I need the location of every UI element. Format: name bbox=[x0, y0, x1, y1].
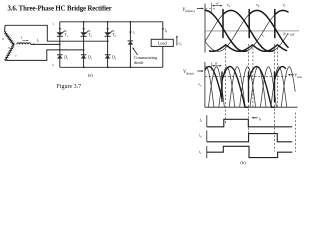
baseline bbox=[205, 106, 298, 108]
ia waveform bbox=[207, 119, 292, 127]
vertical axis bbox=[204, 4, 206, 53]
firing rise line 2 bbox=[248, 72, 250, 102]
junction top rail commutating diode bbox=[130, 21, 132, 23]
diode D2 bbox=[81, 54, 87, 56]
leg 2 wire bbox=[83, 22, 85, 68]
junction bottom rail commutating diode bbox=[130, 66, 132, 68]
alpha arrows bbox=[214, 65, 220, 67]
V0(max) arrow bbox=[197, 70, 202, 72]
commutating diode symbol bbox=[128, 40, 134, 42]
leg 3 wire bbox=[107, 22, 109, 68]
winding phase b (upper-left) bbox=[5, 32, 14, 45]
thick conduction sweep va bbox=[223, 10, 274, 51]
firing drop line 2 bbox=[248, 10, 250, 38]
junction top rail leg2 bbox=[83, 21, 85, 23]
bottom rail bbox=[60, 66, 163, 68]
node dot at leg2 (phase c) bbox=[83, 49, 85, 51]
ib waveform bbox=[207, 134, 292, 142]
current arrow on leg 2 bbox=[83, 28, 85, 31]
leg 1 wire bbox=[59, 22, 61, 68]
commutating diode branch bbox=[129, 22, 131, 68]
junction top rail leg3 bbox=[107, 21, 109, 23]
thick output arc 1 bbox=[222, 67, 248, 108]
thick output arc 0 bbox=[205, 67, 222, 99]
firing rise line 1 bbox=[221, 72, 223, 102]
vertical axis bbox=[204, 62, 206, 107]
small arrow above coil bbox=[23, 39, 29, 41]
current arrow on leg 3 bbox=[107, 28, 109, 31]
diode D3 bbox=[105, 54, 111, 56]
thick conduction sweep vc2 bbox=[275, 10, 288, 14]
load branch top wire bbox=[162, 22, 164, 40]
firing drop line 3 bbox=[274, 10, 276, 38]
svg-text:b: b bbox=[2, 37, 4, 41]
current arrow i_d on branch bbox=[129, 32, 131, 35]
V mean dashed level bbox=[205, 76, 287, 78]
svg-text:Load: Load bbox=[158, 41, 168, 46]
thick bottom diode envelope scallops bbox=[210, 45, 287, 52]
ib axis tick bbox=[206, 131, 208, 142]
ib pointer arrow bbox=[253, 117, 258, 119]
alpha tick bbox=[211, 63, 213, 71]
V mean arrow bbox=[289, 74, 294, 76]
svg-text:n: n bbox=[8, 45, 10, 49]
thyristor T1 bbox=[57, 32, 63, 36]
thin line-voltage tents bbox=[205, 67, 214, 108]
alpha arrows bbox=[214, 5, 221, 7]
thin sinusoid va bbox=[205, 10, 288, 51]
wye neutral node n bbox=[13, 44, 15, 46]
phase a wire to leg 1 bbox=[31, 43, 60, 45]
current arrow on leg 1 bbox=[59, 28, 61, 31]
inter-panel dashed alignment lines bbox=[224, 45, 226, 124]
current arrow i_a bbox=[33, 43, 35, 45]
node dot at leg3 (phase b) bbox=[107, 40, 109, 42]
svg-text:(b): (b) bbox=[240, 160, 246, 165]
phase-b routing wire to leg 3 bbox=[5, 25, 108, 41]
svg-text:(a): (a) bbox=[88, 73, 93, 78]
load box bbox=[151, 39, 173, 46]
junction bottom rail leg2 bbox=[83, 66, 85, 68]
firing rise line 3 bbox=[274, 72, 276, 102]
svg-text:diode: diode bbox=[134, 60, 144, 65]
svg-text:3.6. Three-Phase HC Bridge Rec: 3.6. Three-Phase HC Bridge Rectifier bbox=[8, 5, 112, 12]
node A dot at leg1 bbox=[59, 44, 61, 46]
thyristor T3 bbox=[104, 32, 110, 36]
ia axis tick bbox=[206, 115, 208, 127]
peak dashed level bbox=[205, 8, 215, 10]
pointer arrow to diode bbox=[133, 48, 138, 55]
thyristor T2 bbox=[80, 32, 86, 36]
diode D1 bbox=[57, 54, 63, 56]
svg-text:Figure 3.7: Figure 3.7 bbox=[57, 84, 82, 90]
thin sinusoid vc bbox=[205, 10, 288, 51]
svg-text:L: L bbox=[20, 36, 23, 40]
wire winding-b top to bus bbox=[4, 25, 6, 32]
phase-c routing wire to leg 2 bbox=[5, 50, 83, 61]
thick output arc 3 bbox=[275, 67, 286, 81]
winding phase c (lower-left) bbox=[5, 45, 14, 61]
horizontal axis theta bbox=[205, 30, 299, 32]
current arrow I0 bbox=[162, 28, 164, 31]
V ph(max) arrow bbox=[197, 8, 203, 10]
ic waveform bbox=[207, 146, 292, 157]
load bottom wire bbox=[162, 46, 164, 67]
svg-text:θ = ωt: θ = ωt bbox=[283, 32, 295, 37]
firing drop line 1 bbox=[222, 10, 224, 38]
top rail bbox=[60, 21, 163, 23]
output voltage arrow e0 bbox=[176, 37, 178, 46]
junction bottom rail leg3 bbox=[107, 66, 109, 68]
thick conduction sweep vc bbox=[205, 10, 247, 51]
thick output arc 2 bbox=[249, 67, 275, 108]
thin sinusoid vb bbox=[205, 10, 288, 51]
inductor L coil on phase a bbox=[17, 43, 31, 45]
ic axis tick bbox=[206, 146, 208, 158]
alpha tick bbox=[211, 3, 213, 14]
thick conduction sweep vb bbox=[249, 10, 288, 47]
